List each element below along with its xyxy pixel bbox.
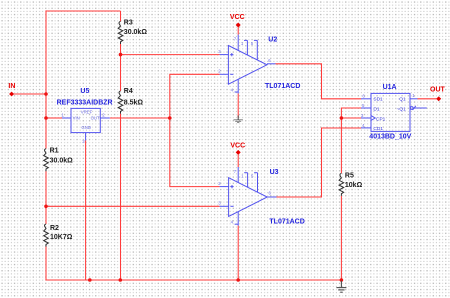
svg-text:IN: IN: [8, 83, 15, 90]
svg-text:OUT: OUT: [91, 116, 100, 121]
port IN: [8, 83, 15, 97]
svg-text:R4: R4: [124, 88, 133, 95]
wire rail below R2 to bottom: [45, 247, 47, 281]
svg-text:U2: U2: [268, 37, 277, 44]
flip-flop U1A 4013BD_10V: [361, 93, 427, 131]
wire U2 pin2 feedback net: [170, 74, 220, 186]
power VCC U2: [230, 14, 245, 27]
node bottom rail VREFrail junction: [119, 278, 123, 282]
node bottom rail U5GND junction: [88, 278, 92, 282]
voltage reference U5 REF3333AIDBZR: [62, 108, 110, 140]
wire U3 VCC: [237, 155, 239, 167]
svg-text:30.0kΩ: 30.0kΩ: [124, 29, 148, 36]
svg-text:8.5kΩ: 8.5kΩ: [124, 100, 144, 107]
wire U3 output to U1A CD1: [277, 128, 362, 197]
resistor R3: [118, 20, 147, 44]
wire U1A D1 branch: [341, 108, 361, 118]
node U5 pin1 junction: [44, 116, 48, 120]
wire divider node to U2 pin3: [121, 54, 220, 56]
svg-text:R3: R3: [124, 20, 133, 27]
node bottom rail ground junction: [340, 278, 344, 282]
svg-text:TL071ACD: TL071ACD: [265, 83, 300, 90]
wire R5 bottom lead: [340, 196, 342, 280]
ground under U2: [234, 116, 243, 123]
wire bottom ground rail: [45, 279, 341, 281]
svg-text:R2: R2: [50, 225, 59, 232]
wire rail between R1 and R2: [45, 171, 47, 224]
svg-text:VIN: VIN: [73, 116, 80, 121]
svg-text:R1: R1: [50, 147, 59, 154]
node R1R2 junction: [44, 205, 48, 209]
svg-text:REF3333AIDBZR: REF3333AIDBZR: [57, 99, 113, 106]
op-amp U3 TL071ACD: [220, 167, 277, 226]
svg-text:D1: D1: [373, 107, 379, 113]
wire VREF rail down to bottom: [120, 118, 122, 280]
svg-text:VCC: VCC: [230, 143, 245, 150]
wire left rail vertical: [45, 10, 47, 148]
op-amp U2 TL071ACD: [220, 35, 276, 94]
svg-text:SD1: SD1: [373, 97, 383, 103]
svg-text:CP1: CP1: [376, 117, 386, 123]
svg-text:GND: GND: [81, 125, 91, 130]
wire U5 pin1 branch: [46, 117, 62, 119]
resistor R1: [44, 147, 73, 171]
wire U2 Vminus to ground: [237, 93, 239, 117]
node IN junction: [44, 92, 48, 96]
svg-text:OUT: OUT: [430, 87, 446, 94]
ground bottom right: [336, 281, 346, 293]
svg-text:30.0kΩ: 30.0kΩ: [50, 158, 74, 165]
node bottom rail U3 junction: [236, 278, 240, 282]
svg-text:U1A: U1A: [383, 84, 397, 91]
svg-text:10K7Ω: 10K7Ω: [50, 234, 73, 241]
node R3R4 junction: [119, 53, 123, 57]
svg-text:VREF: VREF: [81, 109, 93, 114]
wire top rail IN to R3: [46, 10, 121, 12]
wire VREF net U5 out to U1A CP1: [110, 117, 170, 119]
svg-text:~Q1: ~Q1: [397, 107, 407, 113]
wire IN stub: [13, 93, 46, 95]
wire U5 GND to bottom rail: [85, 140, 87, 280]
wire U2 output to U1A SD1: [276, 64, 362, 99]
svg-text:R5: R5: [345, 172, 354, 179]
wire U1A CP1 stub: [341, 117, 361, 119]
svg-text:4013BD_10V: 4013BD_10V: [369, 134, 411, 141]
power VCC U3: [230, 143, 245, 155]
wire R4 bottom lead: [120, 114, 122, 118]
svg-text:VCC: VCC: [230, 14, 245, 21]
wire R3 top lead: [120, 11, 122, 21]
resistor R2: [44, 224, 73, 247]
wire U2 VCC: [237, 27, 239, 34]
wire U1A Q1 to OUT: [418, 98, 437, 100]
port OUT: [430, 87, 446, 102]
wire R1R2 node to U3 pin3: [46, 205, 220, 207]
node U2pin2 VREF junction: [168, 116, 172, 120]
wire R5 top lead: [340, 118, 342, 173]
wire R3 to R4 segment: [120, 44, 122, 91]
node D1 CP1 junction: [340, 116, 344, 120]
svg-text:CD1: CD1: [373, 126, 383, 132]
svg-text:10kΩ: 10kΩ: [345, 182, 363, 189]
svg-text:U5: U5: [80, 88, 89, 95]
resistor R4: [118, 88, 143, 113]
svg-text:TL071ACD: TL071ACD: [269, 219, 304, 226]
wire U3 Vminus to bottom rail: [237, 226, 239, 280]
svg-text:Q1: Q1: [399, 97, 406, 103]
resistor R5: [339, 172, 362, 196]
svg-text:U3: U3: [270, 169, 279, 176]
